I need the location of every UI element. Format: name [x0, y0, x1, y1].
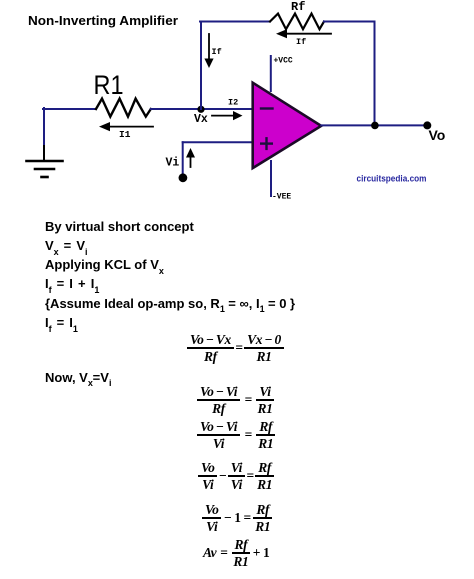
wire: output	[321, 124, 427, 126]
op-amp plus pin symbol	[261, 138, 272, 149]
wire: feedback top horizontal left segment	[200, 21, 270, 23]
wire: feedback right vertical down to output	[374, 22, 376, 126]
wire: left horizontal to R1	[43, 108, 96, 110]
ground	[27, 161, 63, 177]
svg-text:Vx: Vx	[194, 113, 208, 126]
node: feedback junction on output	[371, 122, 379, 130]
wire: +VCC stub	[270, 56, 272, 91]
text: Now, Vx=Vi	[45, 370, 111, 385]
wire: ground stem (black lower part)	[43, 146, 45, 160]
svg-text:If: If	[212, 47, 222, 57]
node Vi terminal	[179, 173, 188, 182]
arrow Vi (up)	[186, 148, 195, 167]
svg-text:-VEE: -VEE	[272, 193, 291, 202]
arrow If (under Rf, pointing left)	[276, 29, 331, 38]
text: assume ideal op-amp	[45, 296, 295, 311]
text: By virtual short concept	[45, 219, 194, 234]
resistor Rf	[270, 14, 324, 30]
node Vx	[197, 106, 204, 113]
wire: Vi branch horizontal to opamp plus input	[183, 141, 253, 143]
arrow I2	[212, 111, 243, 120]
node: Vo terminal	[423, 121, 431, 129]
wire: ground vertical (navy upper part)	[43, 108, 45, 146]
formula 5: Vo/Vi - 1 = Rf/R1	[202, 503, 272, 533]
op-amp minus pin symbol	[261, 107, 273, 109]
wire: feedback left vertical	[200, 22, 202, 110]
text: Applying KCL of Vx	[45, 257, 164, 272]
wire: -VEE stub	[270, 161, 272, 196]
resistor R1	[96, 99, 151, 117]
svg-text:Non-Inverting Amplifier: Non-Inverting Amplifier	[28, 13, 178, 28]
svg-text:circuitspedia.com: circuitspedia.com	[357, 174, 427, 185]
svg-text:If: If	[296, 37, 306, 47]
formula 2: (Vo-Vi)/Rf = Vi/R1	[197, 385, 274, 415]
wire: feedback top horizontal right segment	[324, 21, 375, 23]
text: Vx = Vi	[45, 238, 87, 253]
wire: node Vx to opamp minus input	[201, 108, 253, 110]
arrow I1	[99, 122, 153, 131]
text: If = I + I1	[45, 276, 99, 291]
formula 1: (Vo-Vx)/Rf = (Vx-0)/R1	[187, 333, 284, 363]
wire: Vi branch vertical	[182, 142, 184, 177]
svg-text:Rf: Rf	[291, 0, 305, 14]
text: If = I1	[45, 315, 78, 330]
svg-text:Vi: Vi	[166, 157, 180, 170]
svg-text:I1: I1	[119, 129, 131, 140]
svg-text:I2: I2	[228, 98, 238, 108]
op-amp U1	[253, 83, 322, 168]
svg-text:+VCC: +VCC	[274, 57, 293, 66]
formula 4: Vo/Vi - Vi/Vi = Rf/R1	[198, 461, 274, 491]
arrow If (down, on feedback vertical)	[204, 34, 213, 68]
formula 6: Av = Rf/R1 + 1	[203, 538, 271, 568]
svg-text:R1: R1	[94, 70, 124, 100]
svg-text:Vo: Vo	[429, 127, 446, 143]
wire: R1 to node Vx	[151, 108, 201, 110]
formula 3: (Vo-Vi)/Vi = Rf/R1	[197, 420, 275, 450]
circuit schematic svg	[0, 0, 474, 212]
